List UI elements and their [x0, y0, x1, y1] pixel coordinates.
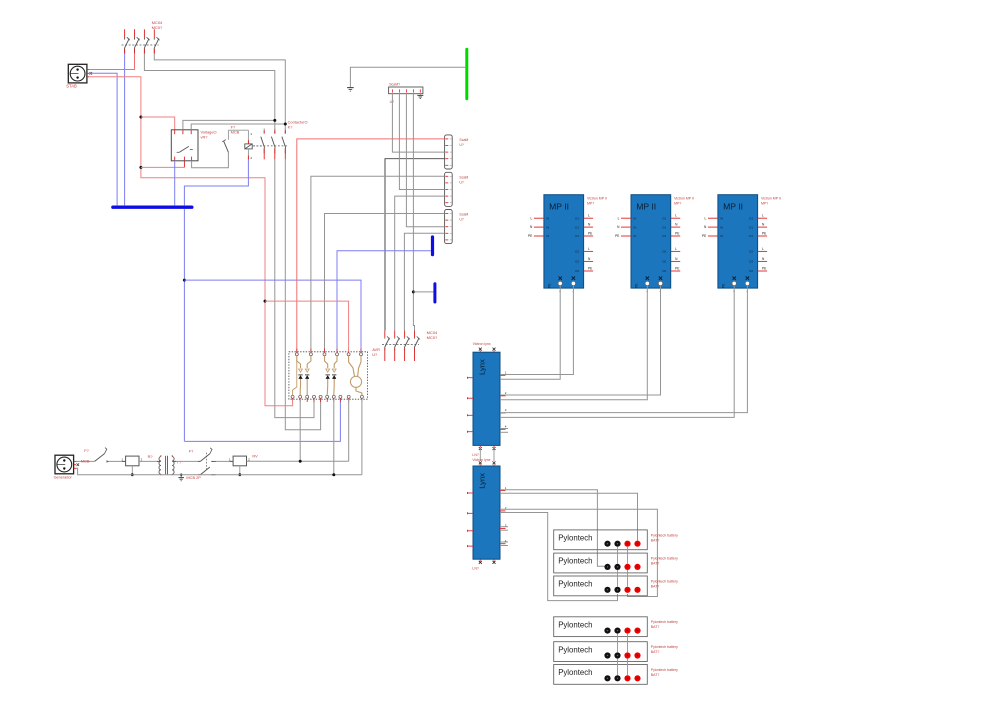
wire strip2 pin4 to breaker2 pole2 [395, 196, 445, 331]
wire PE socket (pink) [89, 77, 265, 301]
wire VR bottom pin2 stub [183, 161, 185, 168]
socket Generador [55, 455, 79, 474]
wire blue to AVR pin B7 [184, 399, 340, 441]
wire Lynx1 to Lynx2 link1 [479, 448, 481, 462]
svg-text:O2: O2 [575, 269, 579, 273]
busbar PE (green) [465, 48, 468, 100]
terminal strip ScaM U? #1 (vertical) [445, 135, 453, 169]
busbar blue small #1 [431, 235, 434, 256]
svg-text:O2: O2 [662, 250, 666, 254]
svg-text:MP?: MP? [587, 201, 594, 205]
ground (PE) [347, 88, 354, 92]
wire topstrip pin1 to strip1 pin3 [392, 94, 444, 152]
svg-text:MC0?: MC0? [427, 335, 438, 340]
svg-text:L: L [762, 247, 764, 251]
svg-text:ScaM?: ScaM? [389, 83, 400, 87]
svg-text:IN: IN [546, 225, 549, 229]
svg-text:Pylontech: Pylontech [558, 645, 592, 654]
svg-text:L: L [588, 247, 590, 251]
node RV to rail [238, 473, 241, 476]
wire Lynx1 pin3 to MP3 minus [500, 286, 747, 413]
svg-text:PE: PE [762, 231, 766, 235]
wire VR bottom pin3 to MCB switch [192, 152, 229, 168]
wire pink to voltage relay top pin1 [141, 117, 175, 130]
svg-text:Pylontech battery: Pylontech battery [651, 557, 678, 561]
switch F? MCB-2P (lower) [198, 467, 216, 475]
wire red junction to AVR B1 [265, 301, 293, 406]
wire bat5-bat6 link [617, 659, 619, 676]
node contactor-a [273, 119, 276, 122]
node upper rail / AVR B2 [299, 460, 302, 463]
svg-text:MP II: MP II [636, 201, 656, 211]
wire PE bar to ground [350, 67, 465, 87]
wire N socket to busbar (blue) [89, 73, 117, 205]
svg-text:MCB: MCB [81, 458, 90, 463]
wire strip1 pin4 to breaker2 pole1 (black) [385, 159, 445, 331]
dc distributor Lynx #2 (Victron) [473, 461, 500, 563]
svg-text:Pylontech: Pylontech [558, 668, 592, 677]
wire Lynx1 pin1 to MP1 minus [500, 286, 573, 375]
node contactor-b ContactorO K? [284, 123, 287, 126]
svg-text:U?: U? [459, 181, 464, 185]
svg-text:BAT?: BAT? [651, 625, 660, 629]
wire breaker pole4 to contactor (grey) [154, 53, 285, 133]
wire breaker pole3 to contactor (grey) [144, 53, 274, 133]
wire AVR B8 to upper rail [348, 399, 350, 461]
wire to DC bar2 [413, 291, 433, 293]
svg-text:Pylontech battery: Pylontech battery [651, 668, 678, 672]
svg-text:ScaM: ScaM [459, 213, 468, 217]
svg-text:O2: O2 [662, 269, 666, 273]
svg-text:Pylontech: Pylontech [558, 534, 592, 543]
node N-bar tap [412, 290, 415, 293]
svg-text:O1: O1 [575, 234, 579, 238]
wire upper rail to AVR B8 [247, 460, 349, 462]
battery Pylontech BAT3 [554, 576, 648, 596]
resistor box R? [121, 456, 142, 475]
wire AVR B10 to bottom rail [361, 399, 363, 475]
svg-text:MP II: MP II [723, 201, 743, 211]
contactor coil K? [245, 130, 262, 160]
svg-text:PE: PE [675, 266, 679, 270]
svg-text:O2: O2 [662, 260, 666, 264]
switch F? MCB-2P (upper) [198, 448, 216, 462]
busbar blue small #2 [433, 282, 436, 303]
svg-text:IN: IN [633, 225, 636, 229]
svg-text:LN?: LN? [472, 567, 478, 571]
svg-text:L: L [762, 214, 764, 218]
svg-text:BAT?: BAT? [651, 584, 660, 588]
svg-text:Pylontech: Pylontech [558, 557, 592, 566]
circuit breaker MC04 (4-pole, top) [122, 29, 160, 53]
svg-text:Victron MP II: Victron MP II [674, 196, 694, 200]
resistor box RV [229, 456, 250, 475]
contactor contacts K? (3-pole) [253, 128, 288, 159]
svg-text:O2: O2 [749, 250, 753, 254]
svg-text:L: L [675, 247, 677, 251]
svg-text:Victron lynx: Victron lynx [473, 342, 491, 346]
svg-text:PE: PE [588, 266, 592, 270]
svg-text:Pylontech battery: Pylontech battery [651, 533, 678, 537]
wire Lynx1 pin1 to MP1 plus [500, 286, 560, 380]
svg-text:R?: R? [148, 454, 154, 459]
svg-text:Pylontech: Pylontech [558, 580, 592, 589]
svg-text:O1: O1 [749, 216, 753, 220]
switch F? MCB (gen) [95, 448, 109, 463]
svg-text:Pylontech battery: Pylontech battery [651, 579, 678, 583]
wire switch to R-box [109, 460, 126, 462]
wire red to AVR T5 [265, 301, 349, 352]
svg-text:PE: PE [675, 231, 679, 235]
wire busbar down (blue) [183, 209, 185, 441]
wire Lynx2 pin2a to battery3 red [500, 509, 657, 596]
battery Pylontech BAT2 [554, 553, 648, 573]
battery Pylontech BAT6 [554, 665, 648, 685]
wire Lynx1 to Lynx2 link2 [493, 448, 495, 462]
svg-text:IN: IN [546, 216, 549, 220]
wire pink to voltage relay bottom pin2 [141, 166, 185, 168]
svg-text:U?: U? [372, 352, 378, 357]
svg-text:O2: O2 [749, 260, 753, 264]
node R-box to rail [131, 473, 134, 476]
svg-text:PE: PE [588, 231, 592, 235]
svg-text:PE: PE [702, 234, 706, 238]
svg-text:O2: O2 [575, 260, 579, 264]
inverter MP II #3 (Victron MultiPlus) [702, 195, 767, 294]
svg-text:Pylontech battery: Pylontech battery [651, 620, 678, 624]
wire L socket to breaker pole2 (red) [89, 53, 134, 70]
terminal strip ScaM (horizontal) [389, 87, 423, 94]
svg-text:O1: O1 [662, 216, 666, 220]
svg-text:Victron MP II: Victron MP II [587, 196, 607, 200]
battery Pylontech BAT1 [554, 530, 648, 550]
wire VR top pin3 (grey) [191, 124, 285, 130]
transformer T? [159, 455, 174, 475]
svg-text:O1: O1 [575, 225, 579, 229]
svg-text:STAB: STAB [66, 83, 77, 88]
wire switch to coil A1 [228, 129, 248, 131]
dc distributor Lynx #1 (Victron) [473, 348, 500, 450]
wire coil A2 to busbar (blue) [184, 159, 248, 205]
svg-text:O1: O1 [662, 225, 666, 229]
svg-text:vR?: vR? [201, 135, 209, 140]
svg-text:RV: RV [252, 454, 258, 459]
wire VR bottom pin1 to busbar (blue) [174, 161, 176, 206]
svg-text:IN: IN [546, 234, 549, 238]
battery Pylontech BAT4 [554, 617, 648, 637]
svg-text:Pylontech battery: Pylontech battery [651, 645, 678, 649]
voltage relay VoltageO vR? [171, 130, 198, 161]
wire VR top pin2 (grey) [183, 120, 275, 129]
wire strip1 pin1 to AVR T1 (red) [297, 139, 445, 353]
wire topstrip pin2 to strip2 pin3 [399, 94, 444, 190]
wire gen L (grey) [76, 460, 94, 462]
wire topstrip pin4 to breaker2 pole4 [413, 94, 414, 331]
svg-text:BAT?: BAT? [651, 650, 660, 654]
svg-text:MP?: MP? [674, 201, 681, 205]
wire strip3 pin1 to AVR T3 [325, 214, 445, 352]
node red junction [264, 300, 267, 303]
wire switch2 to RV box [216, 460, 233, 462]
wire contact2 to AVR pin B4 [275, 159, 314, 417]
svg-text:Lynx: Lynx [478, 359, 487, 375]
svg-text:O1: O1 [749, 225, 753, 229]
wire AVR B6 to bottom rail [333, 399, 335, 475]
wire blue to AVR pin T6 [184, 280, 361, 352]
wire lower rail (gen return) [76, 468, 362, 474]
svg-text:BAT?: BAT? [651, 562, 660, 566]
circuit breaker MC04 (4-pole, middle) [382, 331, 420, 361]
svg-text:IN: IN [720, 216, 723, 220]
svg-text:IN: IN [633, 216, 636, 220]
svg-text:K?: K? [288, 124, 294, 129]
svg-text:O2: O2 [575, 250, 579, 254]
wire Lynx2 pin1a to battery2 [500, 490, 604, 567]
svg-text:ScaM: ScaM [459, 138, 468, 142]
wire bat2-bat3 link [617, 570, 619, 587]
svg-text:IN: IN [720, 234, 723, 238]
wire bat1-bat2 link [617, 547, 619, 564]
node pink-VR-bottom [139, 166, 142, 169]
terminal strip ScaM U? #3 (vertical) [445, 210, 453, 244]
wire Lynx2 pin2b to battery3 black [500, 513, 618, 601]
wire transformer to switch2 [172, 460, 200, 462]
wire Lynx1 pin2 to MP2 plus [500, 286, 647, 400]
svg-text:L: L [675, 214, 677, 218]
svg-text:BAT?: BAT? [651, 538, 660, 542]
svg-text:BAT?: BAT? [651, 673, 660, 677]
svg-text:U?: U? [459, 218, 464, 222]
svg-text:L: L [705, 216, 707, 220]
switch F? MCB [222, 130, 228, 152]
svg-text:PE: PE [762, 266, 766, 270]
wire Lynx2 pin3 stubs [500, 526, 508, 528]
svg-text:Victron MP II: Victron MP II [761, 196, 781, 200]
wire Lynx1 pin2 to MP2 minus [500, 286, 661, 395]
terminal strip ScaM U? #2 (vertical) [445, 172, 453, 206]
wire blue bar1 to AVR T4 [337, 251, 431, 352]
svg-text:MC0?: MC0? [152, 25, 163, 30]
wire strip2 pin1 to AVR T2 [311, 176, 445, 351]
busbar AC (blue) [111, 206, 193, 209]
svg-text:PE: PE [615, 234, 619, 238]
svg-text:Lynx: Lynx [478, 473, 487, 489]
inverter MP II #1 (Victron MultiPlus) [528, 195, 593, 294]
battery Pylontech BAT5 [554, 642, 648, 662]
wire bat4-bat5 link [617, 634, 619, 653]
svg-text:PE: PE [528, 234, 532, 238]
svg-text:L: L [531, 216, 533, 220]
wire Lynx1 pin4 stubs [500, 428, 508, 430]
svg-text:PE: PE [634, 283, 638, 288]
svg-text:PE: PE [721, 283, 725, 288]
svg-text:Pylontech: Pylontech [558, 620, 592, 629]
wire R-box to transformer [139, 460, 161, 462]
wire AVR B2 to lower circuit [299, 399, 301, 461]
relay AVR U? (dashed module) [289, 349, 368, 402]
wire breaker pole1 to busbar (blue) [124, 53, 126, 205]
inverter MP II #2 (Victron MultiPlus) [615, 195, 680, 294]
wire Lynx1 pin3 to MP3 plus [500, 286, 734, 418]
Lynx #2 pins [468, 486, 507, 547]
svg-text:L: L [588, 214, 590, 218]
svg-text:ScaM: ScaM [459, 176, 468, 180]
wire topstrip pin3 to strip3 pin3 [406, 94, 444, 227]
svg-text:MP II: MP II [549, 201, 569, 211]
wire contact3 to AVR pin B5 [285, 159, 320, 429]
svg-text:L: L [618, 216, 620, 220]
svg-text:PE: PE [547, 283, 551, 288]
svg-text:IN: IN [633, 234, 636, 238]
wire Lynx2 pin4 stubs [500, 541, 508, 543]
svg-text:U?: U? [459, 143, 464, 147]
svg-text:MCB 2P: MCB 2P [186, 475, 201, 480]
svg-text:O1: O1 [749, 234, 753, 238]
node busbar-drop [183, 279, 186, 282]
ground under top strip [417, 94, 423, 99]
node lower rail tap B6 [332, 473, 335, 476]
svg-text:MP?: MP? [761, 201, 768, 205]
svg-text:Generador: Generador [54, 476, 73, 480]
svg-text:O1: O1 [662, 234, 666, 238]
linkage MCB-2P [206, 453, 208, 472]
ground transformer [178, 474, 184, 481]
Lynx #1 pins [468, 371, 507, 433]
svg-text:IN: IN [720, 225, 723, 229]
wire Lynx2 pin1b to battery1 [500, 493, 638, 540]
svg-text:LN?: LN? [472, 453, 478, 457]
socket STAB (AC grid inlet) [68, 64, 92, 83]
svg-text:O2: O2 [749, 269, 753, 273]
node pink-VR-top [139, 116, 142, 119]
svg-text:O1: O1 [575, 216, 579, 220]
svg-text:U?: U? [390, 100, 395, 104]
wire strip3 pin4 to breaker2 pole3 [404, 233, 444, 330]
